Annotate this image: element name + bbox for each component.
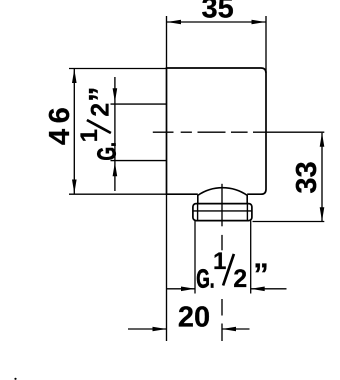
svg-text:G.: G. — [196, 264, 214, 293]
svg-text:33: 33 — [291, 161, 323, 193]
svg-text:”: ” — [82, 87, 117, 103]
svg-text:G.: G. — [92, 142, 121, 160]
svg-text:2: 2 — [86, 103, 114, 117]
svg-text:1: 1 — [213, 248, 226, 275]
svg-text:1: 1 — [76, 129, 103, 142]
svg-text:46: 46 — [44, 102, 76, 145]
svg-text:”: ” — [253, 257, 269, 292]
svg-text:20: 20 — [178, 302, 210, 334]
svg-text:35: 35 — [201, 0, 233, 25]
svg-text:2: 2 — [233, 265, 247, 293]
